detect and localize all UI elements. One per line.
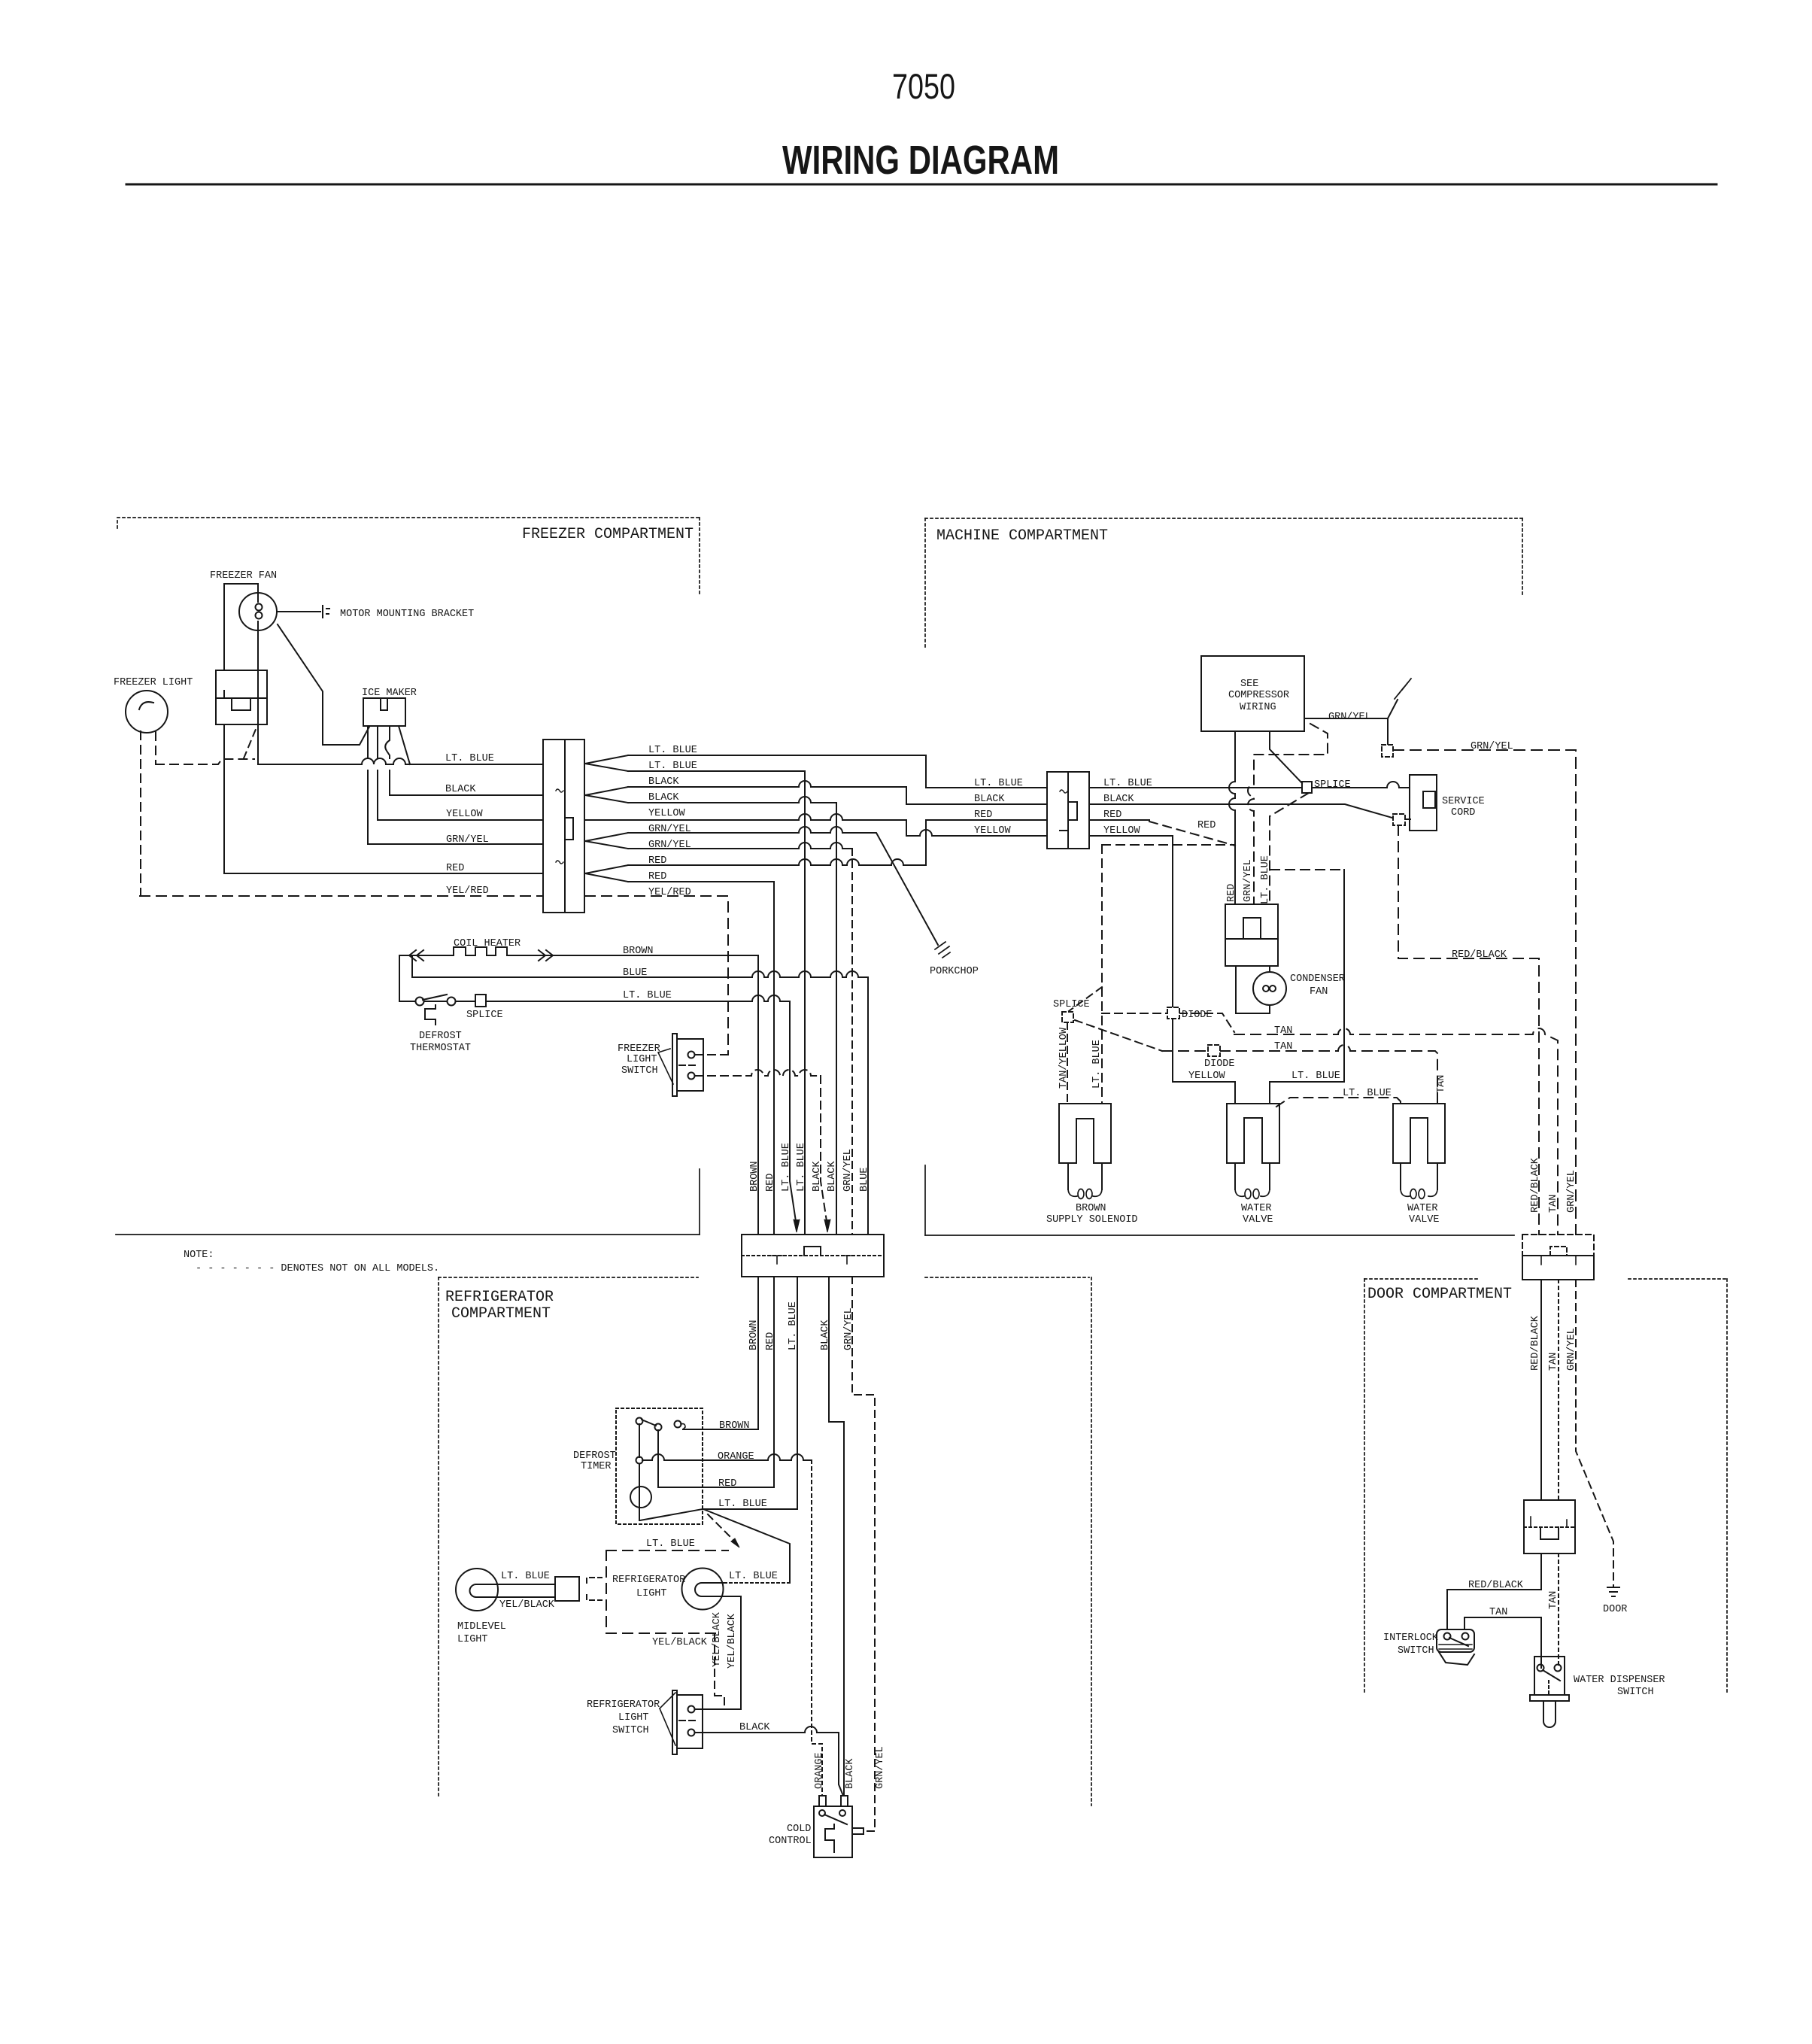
wire fan branch left to RED row [223,724,225,873]
timer internal wire 1 [639,1424,640,1520]
refrigerator light switch body [677,1695,703,1748]
wire compressor pin to splice [1270,731,1302,783]
svg-text:LT. BLUE: LT. BLUE [781,1143,792,1192]
svg-text:RED: RED [765,1174,776,1192]
defrost thermostat terminal 1 [416,998,424,1006]
wire RED compressor to relay with hops [1229,731,1235,904]
solenoid coil [1068,1189,1102,1196]
wire row BLUE (heater return) with crossover bumps [412,971,868,977]
cold control terminal 1 [819,1810,825,1816]
coil heater right chevrons [539,950,553,961]
motor mounting bracket lead [277,611,320,612]
svg-text:LIGHT: LIGHT [457,1634,488,1645]
wire LT.BLUE junction diagonal to bulb [703,1509,790,1583]
dashed wire switch terminal B to connector (BLACK) [695,1070,821,1076]
timer output diagonal [640,1509,703,1520]
svg-text:TAN: TAN [1548,1353,1559,1371]
svg-text:WATER DISPENSER: WATER DISPENSER [1574,1675,1665,1686]
timer terminal 2 [655,1424,662,1431]
cold control spade terminal black [841,1796,848,1806]
title underline rule [126,184,1716,186]
freezer light switch box [216,670,267,724]
svg-text:SPLICE: SPLICE [1053,999,1090,1010]
machine compartment border right [1522,518,1523,594]
svg-text:DOOR: DOOR [1603,1604,1627,1615]
wire YEL/RED dashed to freezer light switch [585,896,728,1055]
svg-text:LT. BLUE: LT. BLUE [501,1571,550,1582]
svg-text:ICE MAKER: ICE MAKER [362,688,417,699]
svg-text:LT. BLUE: LT. BLUE [648,761,697,772]
relay midline [1225,938,1278,940]
ice maker pin 1 wire to GRN/YEL row [367,727,369,844]
wire RED1 to machine wall [628,820,1047,865]
wire LT.BLUE defrost into connector with arrow [790,1001,797,1226]
solenoid coil leads [1068,1163,1102,1189]
timer clock motor [630,1487,651,1508]
dispenser switch arm [1543,1670,1560,1681]
svg-text:BLACK: BLACK [827,1161,838,1192]
water dispenser switch body [1534,1657,1565,1695]
wire RED below connector [658,1277,774,1487]
svg-text:LT. BLUE: LT. BLUE [796,1143,807,1192]
svg-text:TAN: TAN [1548,1591,1559,1609]
svg-text:7050: 7050 [892,66,955,106]
svg-text:PORKCHOP: PORKCHOP [930,966,979,977]
svg-text:GRN/YEL: GRN/YEL [1566,1328,1577,1371]
connector key notch [1068,802,1077,820]
dashed LT.BLUE drop to solenoid [1101,845,1103,1104]
refrigerator compartment border right [1091,1277,1092,1806]
dashed RED/BLACK splice drop [1398,825,1539,1235]
wire GRN/YEL below hinge connector (dashed) [1576,1280,1613,1586]
interlock switch arm [1449,1638,1468,1646]
svg-text:ORANGE: ORANGE [718,1451,754,1462]
svg-text:MOTOR MOUNTING BRACKET: MOTOR MOUNTING BRACKET [340,609,474,620]
svg-text:YEL/BLACK: YEL/BLACK [712,1611,723,1667]
dashed LT.BLUE splice to relay [1270,793,1309,904]
svg-text:BROWN: BROWN [623,946,654,957]
freezer light switch terminal A [688,1052,695,1058]
svg-text:BROWN: BROWN [1076,1203,1106,1214]
svg-text:INTERLOCK: INTERLOCK [1383,1632,1439,1644]
defrost thermostat terminal 2 [448,998,456,1006]
wire ORANGE from timer with hops [642,1454,812,1460]
in-door connector key U [1540,1527,1559,1539]
svg-text:WATER: WATER [1407,1203,1438,1214]
diode D2 [1208,1045,1220,1056]
svg-text:RED/BLACK: RED/BLACK [1468,1580,1524,1591]
midlevel connector mate (dashed) [587,1578,602,1600]
dashed diagonal splice to diode 2 [1075,1020,1162,1051]
svg-text:FREEZER LIGHT: FREEZER LIGHT [114,677,193,688]
svg-text:WIRING: WIRING [1240,702,1276,713]
service cord box [1410,775,1437,831]
wire LT.BLUE below connector [703,1277,797,1509]
connector tick [1060,830,1067,831]
svg-text:GRN/YEL: GRN/YEL [446,834,489,846]
refrigerator liner connector block [742,1235,884,1277]
wire BROWN below connector [683,1277,758,1429]
dashed diagonal to light switch [244,727,256,758]
water valve 1 body [1227,1104,1279,1163]
wire RED2 down to defrost timer [628,882,774,1235]
svg-text:TAN: TAN [1274,1025,1292,1037]
switch midline [679,1720,696,1721]
wire BROWN down to refrigerator connector [757,955,759,1235]
svg-text:LIGHT: LIGHT [636,1588,667,1599]
defrost timer box [616,1408,703,1524]
freezer light switch midline [216,691,267,698]
dashed LT.BLUE relay to valve drop [1270,869,1344,870]
svg-text:COMPRESSOR: COMPRESSOR [1228,690,1289,701]
refrigerator compartment border left [438,1277,439,1798]
svg-text:CONDENSER: CONDENSER [1290,973,1345,985]
condenser fan coil loops [1263,986,1269,992]
porkchop hatch [935,942,950,958]
wire LT.BLUE midlevel to connector [498,1584,555,1585]
svg-text:MIDLEVEL: MIDLEVEL [457,1621,506,1632]
machine compartment border bottom [925,1235,1514,1236]
svg-text:YELLOW: YELLOW [446,809,484,820]
defrost thermostat capillary zigzag [425,1005,436,1025]
heater return vertical [411,955,413,977]
chassis ground hatch [1395,679,1411,699]
svg-text:- - - - - - - DENOTES NOT ON A: - - - - - - - DENOTES NOT ON ALL MODELS. [196,1263,439,1274]
brown supply solenoid body [1059,1104,1111,1163]
dashed RED tap row [1102,844,1234,846]
wire BLACK switch to cold control [695,1727,843,1796]
svg-text:SWITCH: SWITCH [1398,1645,1434,1657]
connector polarity squiggles [556,789,563,864]
svg-text:BLACK: BLACK [812,1161,823,1192]
svg-text:THERMOSTAT: THERMOSTAT [410,1043,471,1054]
wire row GRN/YEL freezer [368,843,543,845]
svg-text:GRN/YEL: GRN/YEL [843,1307,854,1350]
svg-text:BLACK: BLACK [845,1758,856,1789]
wire LT.BLUE2 down to refrigerator connector [628,771,805,1235]
diode D1 [1167,1007,1179,1019]
svg-text:BLUE: BLUE [623,967,647,979]
svg-text:BLACK: BLACK [445,784,476,795]
dispenser switch flange [1530,1695,1569,1701]
svg-text:LT. BLUE: LT. BLUE [648,745,697,756]
svg-text:SERVICE: SERVICE [1442,796,1485,807]
wire BLACK row to service cord [1089,804,1392,818]
dashed YEL/BLACK drop to switch [715,1633,724,1706]
freezer light switch notch [232,698,250,710]
switch terminal B [688,1730,695,1736]
machine compartment border left upper [924,518,926,648]
svg-text:LT. BLUE: LT. BLUE [729,1571,778,1582]
svg-text:WIRING DIAGRAM: WIRING DIAGRAM [782,138,1059,183]
machine compartment border top (dashed) [925,518,1522,519]
in-door connector ticks [1531,1517,1567,1527]
door compartment border top left segment [1364,1278,1480,1280]
freezer light switch midline [679,1065,696,1066]
svg-text:LT. BLUE: LT. BLUE [445,753,494,764]
svg-text:DOOR COMPARTMENT: DOOR COMPARTMENT [1367,1286,1512,1303]
timer terminal 1 [636,1418,643,1425]
svg-text:LT. BLUE: LT. BLUE [974,778,1023,789]
wire fan to LT.BLUE row [257,593,259,764]
wire RED dashed to compressor drop [1149,822,1235,846]
svg-text:WATER: WATER [1241,1203,1272,1214]
freezer fan branch top wire [224,584,258,670]
wire YELLOW row to water valve 1 [1089,836,1235,1104]
dashed TAN row 2 to water valve 2 [1162,1045,1437,1104]
wire relay to condenser fan loop [1236,966,1270,1013]
svg-text:YELLOW: YELLOW [648,808,686,819]
svg-text:RED: RED [974,809,992,821]
ice maker pin 4 diagonal to LT.BLUE row [399,726,410,764]
svg-text:SEE: SEE [1240,679,1258,690]
door connector key bump (dashed) [1550,1247,1567,1256]
cold control side tab [852,1828,864,1834]
wire row LT. BLUE freezer [258,758,543,764]
dashed LT.BLUE row (not all models) [606,1550,728,1551]
svg-text:GRN/YEL: GRN/YEL [842,1149,854,1192]
svg-text:RED: RED [1197,820,1216,831]
wire GRN/YEL1 to porkchop ground [628,827,938,945]
svg-text:REFRIGERATOR: REFRIGERATOR [445,1289,554,1306]
timer internal wire 2 [657,1430,659,1487]
switch terminal A [688,1706,695,1713]
relay overload box [1225,904,1278,966]
wire row BLACK freezer [390,794,543,796]
midlevel light bulb [456,1569,498,1611]
svg-text:REFRIGERATOR: REFRIGERATOR [587,1699,660,1711]
svg-text:LT. BLUE: LT. BLUE [1091,1040,1103,1089]
freezer compartment border right lower [699,1169,700,1235]
cold control capillary [825,1824,834,1852]
dashed LT.BLUE valve1 to valve2 [1276,1098,1401,1107]
svg-text:LT. BLUE: LT. BLUE [718,1499,767,1510]
svg-text:FREEZER COMPARTMENT: FREEZER COMPARTMENT [522,526,694,543]
svg-text:RED: RED [446,863,464,874]
svg-text:BLACK: BLACK [648,776,679,788]
wire BLACK1 to machine wall [628,781,1047,804]
svg-text:VALVE: VALVE [1409,1214,1440,1225]
wire YEL/BLACK midlevel to connector [498,1596,555,1598]
door hinge connector lower [1522,1256,1594,1280]
wire row RED freezer [224,873,543,874]
svg-text:SWITCH: SWITCH [621,1065,658,1077]
svg-text:SPLICE: SPLICE [1314,779,1351,791]
coil heater left chevrons [409,950,423,961]
in-door connector block [1524,1500,1575,1554]
refrigerator compartment border top left segment [439,1277,698,1278]
cold control spade terminal orange [819,1796,826,1806]
svg-text:LIGHT: LIGHT [627,1054,657,1065]
cold control body [814,1806,852,1857]
door connector ticks [1541,1256,1576,1265]
svg-text:NOTE:: NOTE: [184,1250,214,1261]
svg-text:YEL/BLACK: YEL/BLACK [727,1613,738,1669]
link splice to service cord [1405,819,1410,820]
connector block freezer wall [543,740,584,913]
dashed arrow diagonal from junction [708,1514,736,1542]
door ground symbol [1607,1587,1619,1596]
svg-text:VALVE: VALVE [1243,1214,1273,1225]
freezer light wire dashed right [155,732,156,764]
in-door connector midline dotted [1524,1526,1575,1528]
freezer compartment border top (dashed) [117,518,700,528]
wire TAN dotted to water dispenser switch [1558,1554,1559,1668]
svg-text:LIGHT: LIGHT [618,1712,649,1724]
svg-text:DIODE: DIODE [1182,1010,1213,1021]
wire ORANGE drop dotted [812,1460,822,1796]
svg-text:LT. BLUE: LT. BLUE [646,1538,695,1550]
svg-text:DEFROST: DEFROST [573,1450,616,1462]
svg-text:FREEZER: FREEZER [618,1043,660,1055]
svg-text:GRN/YEL: GRN/YEL [1243,859,1254,902]
cold control switch arm [824,1815,847,1824]
freezer fan motor circle [239,593,277,630]
midlevel connector plug [555,1577,579,1601]
svg-text:COLD: COLD [787,1824,811,1835]
interlock switch lines [1439,1645,1472,1649]
svg-text:YEL/BLACK: YEL/BLACK [652,1637,708,1648]
connector block machine wall [1047,772,1089,849]
chevron fanout BLACK pair [585,787,628,803]
freezer light filament arc [139,702,153,709]
water valve 2 coil leads [1401,1163,1437,1189]
wire GRN/YEL compressor to chassis ground [1304,700,1398,718]
svg-text:RED/BLACK: RED/BLACK [1530,1157,1541,1213]
connector T ticks [772,1256,852,1264]
connector key bump [804,1247,821,1256]
svg-text:DEFROST: DEFROST [419,1031,462,1042]
compressor wiring box [1201,656,1304,731]
chevron fanout GRN/YEL pair [585,833,628,849]
interlock switch body [1437,1629,1474,1652]
water valve 1 coil [1235,1189,1270,1196]
dispenser switch terminal 2 [1555,1665,1562,1672]
svg-text:TAN: TAN [1489,1607,1507,1618]
relay inner contact box [1243,918,1261,939]
pointer to freezer light switch [658,1049,673,1084]
dashed wire YEL/RED to switch terminal A [695,1054,728,1055]
svg-text:YEL/BLACK: YEL/BLACK [499,1599,555,1611]
svg-text:CONTROL: CONTROL [769,1836,812,1847]
bracket ground wire to ice maker [278,624,369,745]
wire YEL/BLACK from bulb to switch [695,1596,741,1709]
svg-text:SUPPLY SOLENOID: SUPPLY SOLENOID [1046,1214,1138,1225]
dashed splice (service) [1393,814,1405,825]
connector squiggle [1060,790,1067,793]
freezer light switch (lower) body [677,1039,703,1091]
motor mounting bracket symbol [323,606,329,618]
svg-text:SWITCH: SWITCH [612,1725,649,1736]
freezer light switch terminal B [688,1073,695,1080]
chevron fanout LT.BLUE pair [585,755,628,771]
svg-text:GRN/YEL: GRN/YEL [1566,1170,1577,1213]
svg-text:RED: RED [648,871,666,882]
connector key notch [565,818,573,840]
wire RED/BLACK to interlock switch [1447,1554,1541,1629]
refrigerator bulb filament pill [695,1583,723,1596]
dispenser switch terminal 1 [1537,1665,1544,1672]
wire row YEL/RED freezer (dashed) [140,895,543,897]
dispenser switch stem dotted [1548,1681,1549,1695]
chevron fanout RED pair [585,865,628,882]
interlock switch terminal 2 [1462,1633,1469,1640]
svg-text:COMPARTMENT: COMPARTMENT [451,1305,551,1323]
svg-text:RED: RED [718,1478,736,1490]
svg-text:LT. BLUE: LT. BLUE [1260,855,1271,904]
connector center line [1067,772,1069,849]
wire BLACK below connector (jog) [829,1277,844,1796]
refrigerator light switch plate [672,1690,677,1754]
splice on LT.BLUE row [1302,782,1312,793]
dashed wire to diode 1 [1102,1013,1234,1032]
dashed option box left side [606,1550,607,1633]
svg-text:FAN: FAN [1310,986,1328,998]
svg-text:CORD: CORD [1451,807,1475,819]
wire TAN interlock to dispenser [1464,1617,1541,1668]
dashed splice GRN/YEL [1382,745,1393,757]
defrost thermostat arm [423,995,447,1000]
svg-text:FREEZER FAN: FREEZER FAN [210,570,277,582]
svg-text:LT. BLUE: LT. BLUE [1343,1088,1392,1099]
svg-text:GRN/YEL: GRN/YEL [1471,741,1513,752]
wire dotted bulb feed [724,1582,790,1584]
dashed option box bottom YEL/BLACK [606,1632,716,1634]
interlock rocker flap [1439,1652,1474,1665]
svg-text:TAN/YELLOW: TAN/YELLOW [1058,1027,1070,1089]
svg-text:YELLOW: YELLOW [1103,825,1141,837]
door compartment border top right segment [1628,1278,1727,1280]
coil heater element row with square bumps [399,955,758,956]
svg-text:TAN: TAN [1274,1041,1292,1052]
wire LT.BLUE1 to machine wall [628,755,1047,788]
dashed TAN/YELLOW drop to solenoid [1067,1022,1068,1104]
door compartment border left [1364,1279,1365,1693]
svg-text:LT. BLUE: LT. BLUE [1291,1071,1340,1082]
svg-text:RED: RED [1103,809,1121,821]
water valve 2 coil [1401,1189,1437,1196]
ice maker pin 2 wire to YELLOW row [377,726,378,820]
machine compartment border left lower [924,1165,926,1235]
svg-text:GRN/YEL: GRN/YEL [875,1746,886,1789]
midlevel bulb filament pill [470,1584,499,1597]
svg-text:BLACK: BLACK [739,1722,770,1733]
refrigerator compartment border top right segment [925,1277,1089,1278]
wire BLUE down to refrigerator connector [867,977,869,1235]
water valve 2 body [1393,1104,1445,1163]
svg-text:SWITCH: SWITCH [1617,1687,1654,1698]
dashed wire GRN/YEL to door [1393,750,1576,1235]
ice maker body [363,698,405,726]
splice (defrost circuit) [475,995,486,1007]
svg-text:YELLOW: YELLOW [1188,1071,1226,1082]
timer switch arm [642,1420,656,1426]
water valve 1 coil leads [1235,1163,1270,1189]
timer terminal 4 (orange) [636,1457,643,1464]
wire RED row solid part [1089,819,1149,821]
svg-text:TIMER: TIMER [581,1461,612,1472]
branch to GRN/YEL splice [1387,718,1389,745]
dashed TAN row 1 to door [1234,1028,1558,1235]
dashed diagonal to splice (solenoid) [1069,987,1102,1011]
connector block center line [564,740,566,913]
freezer compartment border right upper [699,518,700,594]
wire LT.BLUE row to splice and service cord [1089,782,1410,788]
svg-text:BLACK: BLACK [648,792,679,803]
wire RED/BLACK below hinge connector [1540,1280,1542,1500]
splice (solenoid feed) [1062,1012,1073,1022]
svg-text:SPLICE: SPLICE [466,1010,503,1021]
